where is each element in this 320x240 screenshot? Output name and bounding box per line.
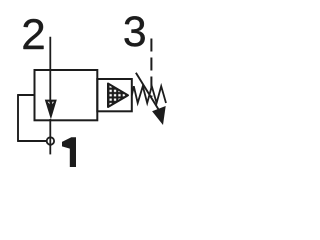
wire valve to port 1	[49, 119, 51, 154]
port 1 node circle	[47, 137, 54, 144]
port label 1	[62, 137, 76, 167]
flow arrow white notches	[48, 102, 50, 105]
valve body U1	[35, 70, 98, 120]
port 3 pilot dashed wire	[150, 39, 152, 98]
proportional solenoid triangle	[108, 84, 128, 108]
pilot wire to port 1	[18, 140, 47, 142]
pilot stage box U2	[97, 79, 132, 111]
adjustment arrowhead	[152, 106, 166, 125]
wire port 2 to valve	[49, 37, 51, 102]
port label 3	[125, 16, 145, 46]
adjustment arrow shaft	[136, 73, 160, 111]
port label 2	[23, 19, 43, 49]
flow arrow	[45, 100, 57, 120]
pilot tap wire	[18, 94, 35, 96]
pilot wire down	[17, 94, 19, 142]
spring	[132, 86, 166, 103]
